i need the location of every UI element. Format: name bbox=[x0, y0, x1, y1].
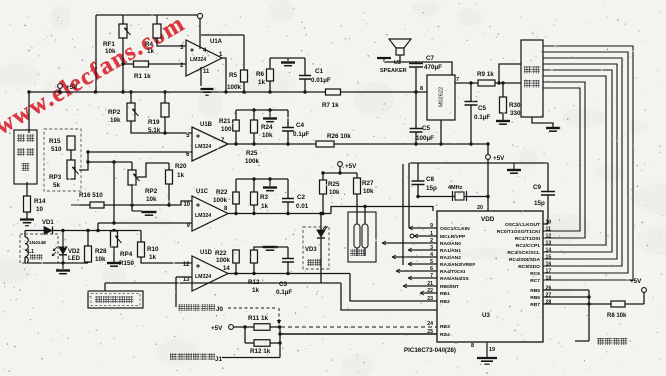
potentiometer RP4 bbox=[111, 231, 118, 247]
wire pin26 row bbox=[543, 289, 589, 291]
ground y179 bbox=[269, 179, 271, 186]
svg-text:VDD: VDD bbox=[481, 216, 495, 223]
wire bottom y263 bbox=[25, 262, 88, 264]
svg-text:U3: U3 bbox=[482, 312, 490, 319]
resistor R23 bbox=[251, 192, 258, 205]
wire R19 riser bbox=[164, 92, 166, 103]
ground bar y247 bbox=[263, 246, 278, 248]
wire R16 tail left bbox=[71, 204, 90, 206]
svg-text:LED: LED bbox=[68, 256, 81, 262]
humidity electrode left bbox=[354, 224, 360, 248]
wire U1D output y273.5 bbox=[228, 273, 350, 275]
wire voice pin upper bbox=[499, 64, 521, 83]
resistor R30 bbox=[500, 97, 507, 113]
svg-text:15: 15 bbox=[546, 255, 552, 261]
wire amp output bbox=[455, 82, 478, 84]
svg-text:R1 1k: R1 1k bbox=[134, 73, 151, 80]
node R9 bbox=[469, 81, 472, 84]
wire vdd riser bbox=[487, 144, 489, 155]
svg-text:RP2: RP2 bbox=[145, 188, 158, 195]
svg-text:R25: R25 bbox=[328, 181, 340, 188]
svg-text:10: 10 bbox=[183, 202, 190, 208]
wire MCU left stub y293 bbox=[420, 292, 437, 294]
wire R25r top bbox=[322, 173, 324, 180]
wire R21 top bbox=[235, 110, 237, 120]
svg-text:0.01: 0.01 bbox=[296, 203, 309, 210]
diode VD1 bbox=[44, 227, 52, 235]
capacitor C4 bbox=[287, 110, 289, 127]
terminal +5V MCU bbox=[486, 155, 491, 160]
svg-text:100k: 100k bbox=[216, 257, 231, 264]
label humidity bbox=[350, 249, 357, 256]
svg-text:10k: 10k bbox=[363, 188, 374, 195]
wire speaker stem bbox=[399, 55, 401, 62]
wire J0 dashed bbox=[228, 307, 277, 309]
svg-text:PIC16C73-04/I(28): PIC16C73-04/I(28) bbox=[404, 347, 456, 354]
wire R22c bottom bbox=[235, 204, 237, 214]
resistor R12 lower bbox=[254, 340, 270, 347]
svg-text:C4: C4 bbox=[296, 122, 305, 129]
resistor R22 U1D bbox=[233, 250, 240, 263]
svg-text:470µF: 470µF bbox=[424, 64, 442, 71]
wire RP2 riser bbox=[130, 92, 132, 103]
capacitor C9 bbox=[547, 163, 549, 191]
wire MCU left stub y257 bbox=[392, 256, 437, 258]
svg-text:330: 330 bbox=[510, 110, 521, 117]
svg-text:1k: 1k bbox=[149, 254, 157, 261]
wire long vertical x114 bbox=[113, 162, 115, 223]
label door detect J1 bbox=[170, 353, 177, 360]
svg-text:R28: R28 bbox=[95, 248, 107, 255]
wire pin27 row bbox=[543, 296, 589, 298]
wire feedback top y110 bbox=[236, 109, 288, 111]
svg-text:10k: 10k bbox=[262, 132, 273, 139]
svg-text:10: 10 bbox=[36, 206, 44, 213]
label voice chip bbox=[524, 66, 531, 73]
wire RP3 wiper to pin6 rail bbox=[79, 152, 88, 170]
wire C9 to pin10 bbox=[543, 223, 548, 225]
node risers bbox=[129, 90, 132, 93]
svg-text:1k: 1k bbox=[177, 172, 185, 179]
wire U1A output bbox=[222, 58, 226, 92]
wire pin11 down bbox=[200, 67, 202, 86]
wire y144 to amp block bbox=[334, 143, 488, 145]
wire R22c top bbox=[235, 179, 237, 192]
wire MCU left stub y286 bbox=[403, 285, 437, 287]
svg-text:10k: 10k bbox=[95, 256, 106, 263]
label displacement sensor bbox=[95, 296, 102, 303]
node R11 left bbox=[243, 325, 246, 328]
wire x98 down bbox=[97, 223, 99, 230]
svg-text:14: 14 bbox=[223, 266, 230, 272]
wire +5V stem bbox=[339, 166, 341, 173]
svg-text:LM324: LM324 bbox=[195, 274, 211, 280]
op-amp U1C bbox=[192, 196, 228, 231]
wire R15-RP3 bbox=[70, 150, 72, 160]
label key contact J0 bbox=[178, 304, 185, 311]
wire R12 right bbox=[270, 342, 280, 344]
svg-text:+5V: +5V bbox=[630, 278, 642, 285]
node R19 join bbox=[163, 131, 166, 134]
terminal circle top bbox=[197, 13, 202, 18]
svg-text:R30: R30 bbox=[509, 102, 521, 109]
speaker U2 bbox=[389, 39, 411, 48]
bus wire 7 bbox=[543, 82, 585, 238]
svg-text:C9: C9 bbox=[533, 184, 542, 191]
wire R6 top bbox=[269, 58, 271, 69]
svg-text:RA3/AN3/VREF: RA3/AN3/VREF bbox=[440, 262, 475, 268]
svg-text:14: 14 bbox=[546, 248, 552, 254]
bus wire 1 bbox=[543, 46, 633, 280]
capacitor C2 bbox=[287, 179, 289, 198]
svg-text:RC1/T1OSI: RC1/T1OSI bbox=[515, 236, 541, 242]
wire +5V right stem bbox=[643, 292, 645, 304]
svg-text:100: 100 bbox=[221, 126, 232, 133]
resistor R5 bbox=[241, 70, 248, 82]
ground y163 bbox=[513, 163, 515, 169]
node y110 bbox=[252, 108, 255, 111]
module box dashed around R15 RP3 bbox=[44, 129, 81, 191]
wire coil stub bbox=[24, 231, 26, 238]
inductor L1 bbox=[25, 237, 28, 263]
wire feedback top y179 bbox=[236, 178, 288, 180]
wire rail after R7 bbox=[341, 91, 428, 93]
wire R8 leads bbox=[589, 303, 611, 305]
svg-text:+5V: +5V bbox=[66, 84, 78, 91]
wire pin10 y205 bbox=[104, 201, 192, 205]
wire VD3 top bbox=[320, 214, 322, 231]
svg-text:15p: 15p bbox=[426, 185, 437, 192]
bus wire 8 bbox=[543, 88, 580, 231]
svg-text:R25: R25 bbox=[246, 150, 258, 157]
svg-text:MCLR/VPP: MCLR/VPP bbox=[440, 234, 466, 240]
wire J0 drop bbox=[278, 308, 280, 321]
resistor R20 bbox=[166, 170, 173, 184]
svg-text:7: 7 bbox=[456, 77, 459, 83]
wire MCU left stub y243 bbox=[382, 242, 437, 244]
svg-text:R27: R27 bbox=[362, 180, 374, 187]
wire R6 bottom bbox=[269, 81, 271, 92]
wire mercury stub bbox=[575, 340, 589, 342]
svg-text:R150: R150 bbox=[119, 260, 135, 267]
node crystal bbox=[416, 195, 419, 198]
wire R16 left bbox=[80, 204, 90, 206]
resistor R22 U1C bbox=[233, 192, 240, 204]
svg-text:RC0/T1OSO/T1CKI: RC0/T1OSO/T1CKI bbox=[497, 229, 541, 235]
photodiode box dashed bbox=[303, 227, 329, 269]
svg-text:RB3: RB3 bbox=[440, 324, 450, 330]
terminal +5V mid bbox=[338, 162, 343, 167]
svg-text:4MHz: 4MHz bbox=[448, 185, 463, 191]
wire R24 top bbox=[253, 110, 255, 120]
wire R23 top bbox=[253, 179, 255, 192]
svg-text:R15: R15 bbox=[49, 138, 61, 145]
opamp plus marks bbox=[196, 134, 200, 138]
wire y62 bbox=[384, 61, 416, 63]
speaker terminal bar bbox=[377, 57, 391, 59]
svg-text:1N4148: 1N4148 bbox=[29, 240, 46, 246]
capacitor C3 bbox=[287, 247, 289, 258]
crystal Y1 4MHz bbox=[455, 192, 464, 200]
node rail dots bbox=[58, 90, 61, 93]
resistor R10 bbox=[138, 242, 145, 257]
displacement sensor box bbox=[88, 291, 143, 308]
svg-text:RC7: RC7 bbox=[530, 278, 540, 284]
wire R9 right bbox=[495, 82, 521, 84]
capacitor C6 0.1uF bbox=[470, 83, 472, 101]
wire R11 right bbox=[270, 326, 281, 328]
svg-text:C2: C2 bbox=[297, 194, 306, 201]
svg-text:C8: C8 bbox=[426, 176, 435, 183]
svg-text:OSC1/CLKIN: OSC1/CLKIN bbox=[440, 226, 470, 232]
wire sensor to R14 bbox=[26, 182, 28, 196]
wire R20 top bbox=[168, 163, 170, 170]
wire J0 row dashed to MCU bbox=[281, 326, 437, 328]
wire MCU left stub y250 bbox=[408, 249, 437, 251]
svg-text:R9 1k: R9 1k bbox=[477, 71, 494, 78]
node x416 y92 bbox=[414, 90, 417, 93]
wire R14 bottom bbox=[26, 212, 28, 219]
svg-text:RC3/SCK/SCL: RC3/SCK/SCL bbox=[507, 250, 540, 256]
svg-text:R5: R5 bbox=[229, 72, 238, 79]
wire pin13 y277 bbox=[176, 276, 192, 278]
svg-text:RP4: RP4 bbox=[120, 251, 133, 258]
wire R24 bottom bbox=[253, 133, 255, 144]
resistor R1 bbox=[134, 61, 149, 67]
wire RF1 top bbox=[122, 15, 124, 24]
svg-text:RC2/CCP1: RC2/CCP1 bbox=[516, 243, 540, 249]
op-amp U1B bbox=[192, 127, 228, 161]
ground y263 bbox=[62, 263, 64, 269]
svg-text:100k: 100k bbox=[245, 158, 260, 165]
wire vertical x403 bbox=[402, 164, 404, 265]
svg-text:RA4/T0CKI: RA4/T0CKI bbox=[440, 269, 466, 275]
bus wire 4 bbox=[543, 64, 617, 259]
svg-text:RB0/INT: RB0/INT bbox=[440, 284, 459, 290]
svg-text:20: 20 bbox=[477, 205, 483, 211]
resistor R4 bbox=[153, 24, 161, 38]
svg-text:LM324: LM324 bbox=[195, 213, 211, 219]
svg-text:19: 19 bbox=[489, 347, 495, 353]
wire R5 bottom bbox=[243, 82, 245, 92]
svg-text:0.01µF: 0.01µF bbox=[311, 77, 331, 84]
alcohol sensor box bbox=[14, 130, 37, 184]
ground U1A bbox=[201, 88, 214, 90]
wire x176 down bbox=[175, 277, 177, 307]
node wiper bbox=[86, 150, 89, 153]
ground R30 bbox=[496, 120, 510, 122]
svg-text:25: 25 bbox=[427, 329, 433, 335]
resistor R7 bbox=[326, 89, 341, 95]
wire y230 top row bbox=[25, 230, 44, 232]
wire R12d bottom bbox=[253, 263, 255, 274]
svg-text:23: 23 bbox=[427, 296, 433, 302]
wire R28 top bbox=[87, 231, 89, 247]
svg-text:RB2: RB2 bbox=[440, 299, 450, 305]
resistor R25 right bbox=[320, 180, 327, 194]
terminal +5V right bbox=[642, 288, 647, 293]
wire pin4 supply bbox=[199, 19, 201, 49]
wire step to y206.5 bbox=[331, 207, 433, 214]
svg-text:16: 16 bbox=[546, 262, 552, 268]
wire x245 down bbox=[244, 327, 246, 343]
ground RP2 lower bbox=[142, 211, 157, 213]
wire R30 top bbox=[502, 83, 504, 97]
svg-text:C5: C5 bbox=[422, 125, 431, 132]
svg-text:0.1µF: 0.1µF bbox=[474, 114, 490, 121]
wire +5V to R11 bbox=[233, 326, 254, 328]
svg-text:R6: R6 bbox=[256, 71, 265, 78]
node y162 bbox=[86, 160, 89, 163]
wire x132 to RP2 lower bbox=[131, 162, 133, 170]
svg-text:24: 24 bbox=[427, 321, 433, 327]
wire x589 down bbox=[588, 290, 590, 341]
svg-text:R7 1k: R7 1k bbox=[322, 102, 339, 109]
node vdd bbox=[486, 142, 489, 145]
node out U1D bbox=[234, 272, 237, 275]
svg-text:R11 1k: R11 1k bbox=[248, 315, 268, 322]
node +5V rail y173 dots bbox=[338, 171, 341, 174]
svg-text:U1D: U1D bbox=[200, 250, 213, 256]
svg-text:C7: C7 bbox=[426, 55, 435, 62]
label alcohol sensor bbox=[17, 134, 25, 142]
potentiometer RP3 bbox=[67, 160, 75, 179]
humidity electrode right bbox=[362, 224, 368, 248]
svg-text:RB1: RB1 bbox=[440, 291, 450, 297]
node R1 left bbox=[121, 62, 124, 65]
wire R30 bottom bbox=[502, 113, 504, 120]
bus wire 2 bbox=[543, 52, 628, 273]
wire R27 top bbox=[356, 173, 358, 178]
svg-text:11: 11 bbox=[546, 227, 552, 233]
svg-text:SPEAKER: SPEAKER bbox=[380, 68, 407, 74]
svg-text:R26 10k: R26 10k bbox=[327, 133, 351, 140]
svg-text:RB6: RB6 bbox=[530, 295, 540, 301]
svg-text:17: 17 bbox=[546, 269, 552, 275]
svg-text:RA1/AN1: RA1/AN1 bbox=[440, 248, 461, 254]
wire R22d bottom bbox=[235, 263, 237, 274]
resistor R28 bbox=[85, 246, 92, 262]
resistor R14 bbox=[24, 196, 31, 212]
wire J1 row to MCU bbox=[280, 333, 437, 335]
wire pin28 row bbox=[543, 303, 589, 305]
svg-text:13: 13 bbox=[546, 241, 552, 247]
svg-text:J1: J1 bbox=[215, 356, 223, 363]
bus wire 5 bbox=[543, 70, 612, 252]
svg-text:R14: R14 bbox=[34, 198, 46, 205]
node y92 extra bbox=[414, 90, 417, 93]
svg-text:RP2: RP2 bbox=[108, 109, 121, 116]
svg-text:C1: C1 bbox=[315, 68, 324, 75]
wire left riser x29 bbox=[28, 92, 30, 133]
wire R5 top bbox=[243, 35, 245, 70]
svg-text:M02622: M02622 bbox=[438, 87, 444, 107]
svg-text:U1B: U1B bbox=[200, 122, 213, 128]
node R12 right bbox=[278, 341, 281, 344]
bus wire 6 bbox=[543, 76, 606, 245]
ground voice chip bbox=[546, 127, 560, 129]
resistor R19 bbox=[161, 103, 169, 117]
wire MCU bottom pin19 bbox=[486, 342, 488, 357]
wire MCU left stub y264 bbox=[408, 263, 437, 265]
resistor R9 bbox=[478, 80, 495, 86]
node y179 bbox=[252, 177, 255, 180]
svg-text:RC5/SDO: RC5/SDO bbox=[518, 264, 540, 270]
wire R23 bottom bbox=[253, 205, 255, 214]
capacitor C8 bbox=[417, 163, 419, 181]
svg-text:+5V: +5V bbox=[211, 325, 223, 332]
resistor R15 bbox=[67, 136, 75, 150]
svg-text:VD3: VD3 bbox=[305, 247, 317, 253]
svg-text:J0: J0 bbox=[216, 306, 224, 313]
svg-text:RC6: RC6 bbox=[530, 271, 540, 277]
svg-text:+5V: +5V bbox=[493, 155, 505, 162]
wire MCU left stub y278 bbox=[408, 277, 437, 279]
wire RF1 bottom to rail bbox=[122, 38, 124, 92]
LED VD2 bbox=[62, 231, 64, 248]
wire electrode bottoms bbox=[356, 248, 358, 256]
svg-text:RC4/SDI/SDA: RC4/SDI/SDA bbox=[509, 257, 540, 263]
terminal +5V left bbox=[58, 84, 63, 89]
svg-text:R24: R24 bbox=[261, 124, 273, 131]
wire R1 right to pin2 bbox=[149, 63, 187, 65]
wire osc top y163 bbox=[409, 162, 548, 164]
svg-text:15p: 15p bbox=[534, 200, 545, 207]
node x589 bbox=[587, 302, 590, 305]
wire top y58 bbox=[270, 57, 305, 59]
wire R4 top bbox=[156, 15, 158, 24]
node x132 y205 bbox=[130, 203, 133, 206]
wire U1B output y144 bbox=[228, 143, 316, 145]
wire +5V rail y173 bbox=[323, 172, 357, 174]
node y263 bbox=[61, 261, 64, 264]
wire RP2 lower bottom bbox=[131, 185, 133, 211]
wire y162 bbox=[88, 161, 132, 163]
svg-text:RA5/AN4/SS: RA5/AN4/SS bbox=[440, 276, 470, 282]
potentiometer RP2 upper bbox=[127, 103, 135, 121]
capacitor C1 bbox=[304, 58, 306, 75]
svg-text:18: 18 bbox=[546, 276, 552, 282]
wire pin6 y152 bbox=[88, 151, 192, 153]
potentiometer RP2 lower bbox=[128, 170, 136, 185]
svg-text:0.1µF: 0.1µF bbox=[276, 289, 292, 296]
svg-text:100k: 100k bbox=[213, 197, 228, 204]
ground above C1 bbox=[287, 58, 289, 61]
op-amp U1D bbox=[192, 256, 228, 291]
wire RP4 top bbox=[113, 230, 115, 233]
svg-text:RA0/AN0: RA0/AN0 bbox=[440, 241, 461, 247]
ground MCU bbox=[477, 357, 497, 359]
svg-text:R10: R10 bbox=[147, 246, 159, 253]
svg-text:R3: R3 bbox=[260, 194, 269, 201]
bus wire 3 bbox=[543, 58, 622, 266]
wire R12d top bbox=[254, 247, 288, 250]
resistor R6 bbox=[267, 69, 274, 81]
wire U1D out corner bbox=[350, 274, 437, 302]
wire RP4 bottom bbox=[113, 247, 115, 262]
svg-text:LM324: LM324 bbox=[190, 57, 206, 63]
wire R28 bottom bbox=[87, 262, 89, 263]
wire osc left x409 bbox=[408, 163, 410, 228]
node y230 bbox=[61, 229, 64, 232]
wire R10 top bbox=[140, 231, 142, 243]
node electrode bbox=[363, 205, 366, 208]
wire U1C output y213.5 bbox=[228, 213, 331, 215]
wire x341 corner bbox=[341, 283, 437, 310]
op-amp U1A bbox=[186, 40, 222, 76]
svg-text:R19: R19 bbox=[148, 119, 160, 126]
label mercury switch bbox=[597, 338, 604, 345]
